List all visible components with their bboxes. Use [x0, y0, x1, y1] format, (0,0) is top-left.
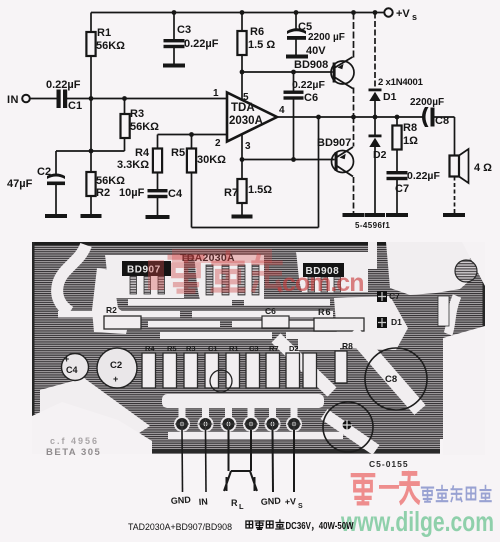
- wire pin 3 stub: [241, 134, 243, 160]
- watermark 个 (red): [401, 473, 419, 502]
- wire rail to C3: [173, 13, 175, 40]
- wire R2 to ground: [90, 195, 92, 214]
- svg-text:+V: +V: [284, 496, 296, 507]
- wire R4 to C4: [157, 172, 159, 190]
- pcb trace middle band 1: [128, 299, 330, 306]
- IC label box BD908: [303, 263, 344, 277]
- svg-text:4: 4: [279, 105, 285, 116]
- capacitor outline C5 big circle (pcb): [323, 402, 373, 452]
- svg-text:TDA: TDA: [231, 102, 255, 114]
- svg-text:2200µF: 2200µF: [410, 97, 444, 108]
- svg-text:4 Ω: 4 Ω: [474, 162, 492, 174]
- svg-text:R5: R5: [171, 147, 185, 159]
- junction: [291, 70, 296, 75]
- lead wire RL left: [228, 430, 230, 471]
- wire output to D2: [374, 117, 376, 135]
- pcb trace right edge snake: [448, 296, 457, 334]
- svg-text:+: +: [113, 374, 118, 384]
- pcb trace bottom band under pads: [168, 432, 343, 439]
- transistor BD908 pads (slots): [308, 277, 341, 292]
- svg-text:R7: R7: [269, 344, 279, 353]
- wire to C6 top: [293, 72, 295, 91]
- resistor R4: [153, 149, 162, 173]
- watermarks and captions: [128, 249, 494, 537]
- wire C2/R2/R3 node: [56, 150, 125, 152]
- svg-text:C8: C8: [385, 374, 397, 385]
- pad with cross C7 (pcb): [377, 291, 400, 302]
- pcb trace diagonal through C8: [352, 332, 420, 410]
- svg-text:0.22µF: 0.22µF: [292, 79, 325, 91]
- svg-text:2: 2: [215, 138, 221, 149]
- ground C4: [146, 215, 170, 219]
- capacitor C2 (electrolytic 47uF): [47, 174, 65, 186]
- transistor Q2 BD907: [332, 147, 354, 177]
- RL load symbol: [224, 471, 257, 491]
- svg-text:IN: IN: [198, 496, 208, 507]
- wire R1 to input node: [90, 55, 92, 99]
- wire C8 to speaker: [435, 116, 455, 118]
- PCB photo top border: [32, 242, 485, 246]
- svg-text:.com.cn: .com.cn: [276, 269, 363, 297]
- wire pin 5 stub: [241, 72, 243, 101]
- wire C5 to ground: [295, 40, 297, 55]
- wire output to BD907: [353, 117, 355, 147]
- svg-text:s: s: [412, 12, 417, 22]
- svg-text:D2: D2: [373, 149, 387, 161]
- wire speaker to ground: [454, 177, 456, 214]
- pcb white right-bottom margin: [443, 326, 485, 455]
- svg-text:56KΩ: 56KΩ: [130, 121, 159, 133]
- svg-text:C6: C6: [265, 306, 276, 316]
- PCB photo background (scanned stripes): [32, 242, 485, 454]
- wire to R5: [191, 135, 193, 149]
- svg-text:C3: C3: [249, 344, 259, 353]
- svg-text:0.22µF: 0.22µF: [46, 79, 81, 91]
- wire rail to R1: [90, 13, 92, 33]
- svg-text:www.dilge.com: www.dilge.com: [340, 506, 494, 537]
- wire to R7: [241, 160, 243, 180]
- svg-text:C7: C7: [395, 183, 409, 195]
- svg-text:0.22µF: 0.22µF: [184, 38, 219, 50]
- wire rail to C5: [295, 13, 297, 31]
- +Vs terminal: [384, 8, 392, 16]
- transistor BD907 pads (slots): [130, 276, 165, 294]
- pcb trace right middle patch: [334, 296, 408, 350]
- svg-text:R6: R6: [318, 307, 332, 317]
- svg-text:3.3KΩ: 3.3KΩ: [117, 159, 149, 171]
- white patch right of bottom border: [440, 439, 486, 455]
- pcb trace region around BD907: [105, 255, 184, 298]
- svg-text:IN: IN: [7, 94, 19, 106]
- svg-text:1.5Ω: 1.5Ω: [248, 184, 272, 196]
- pad with cross D1 (pcb): [377, 317, 402, 328]
- resistor outline R6 (pcb): [314, 307, 364, 331]
- resistor R3: [121, 114, 130, 138]
- svg-text:TAD2030A+BD907/BD908: TAD2030A+BD907/BD908: [128, 522, 232, 532]
- PCB photo right border: [483, 242, 486, 334]
- svg-text:R3: R3: [186, 344, 196, 353]
- pcb trace patch left of R8: [298, 336, 340, 350]
- component row labels (pcb): [145, 344, 299, 353]
- speaker 4 ohm: [450, 149, 469, 183]
- svg-text:GND: GND: [170, 495, 191, 506]
- resistor R7: [237, 179, 246, 203]
- junction: [351, 10, 356, 15]
- diode D2: [369, 135, 382, 148]
- wire C2 to ground: [55, 185, 57, 214]
- svg-text:5: 5: [243, 92, 249, 103]
- wire C3 to ground: [173, 48, 175, 64]
- wire rail to BD908 emitter: [353, 13, 355, 58]
- wire to R2: [90, 151, 92, 172]
- wire D1 to output: [374, 101, 376, 118]
- capacitor outline C2 (pcb): [97, 348, 137, 388]
- pcb trace left vertical band: [92, 268, 130, 334]
- ground C5: [286, 55, 308, 59]
- schematic group: [7, 8, 492, 230]
- right region cutout slot: [438, 296, 449, 326]
- lead wire +Vs: [293, 430, 295, 492]
- svg-text:D1: D1: [391, 317, 402, 327]
- ground C7: [386, 213, 408, 217]
- svg-text:D2: D2: [289, 344, 299, 353]
- pcb trace region TDA2030 footprint: [194, 255, 264, 300]
- ground D2: [365, 213, 385, 217]
- wire C4 to ground: [157, 198, 159, 216]
- junction: [316, 115, 321, 120]
- red watermark char 2 (PCB): [213, 253, 243, 290]
- svg-text:R2: R2: [96, 187, 110, 199]
- wire BD908 base net: [242, 71, 333, 73]
- wire rail to R6: [241, 13, 243, 32]
- svg-text:0.22µF: 0.22µF: [407, 170, 440, 182]
- TDA2030 leg slots: [206, 265, 259, 295]
- svg-text:C7: C7: [389, 291, 400, 301]
- resistor R5: [187, 149, 196, 173]
- svg-text:1: 1: [213, 88, 219, 99]
- wire pin 2 net: [158, 134, 228, 136]
- pcb trace bottom-left diagonal: [40, 378, 150, 444]
- svg-text:C3: C3: [177, 24, 191, 36]
- svg-text:R3: R3: [130, 108, 144, 120]
- PCB photo bottom border: [32, 449, 440, 453]
- pcb trace right vertical stub: [368, 242, 377, 269]
- pcb trace middle band 4: [160, 332, 390, 339]
- svg-text:+V: +V: [396, 8, 410, 20]
- junction: [373, 10, 378, 15]
- wire node to R2 branch: [90, 99, 92, 152]
- svg-text:1.5 Ω: 1.5 Ω: [248, 39, 275, 51]
- pcb trace region around BD908: [296, 252, 368, 292]
- pcb trace left S-curve: [57, 245, 86, 312]
- svg-text:C5-0155: C5-0155: [369, 459, 409, 469]
- caption chinese 电源电压: [246, 520, 284, 529]
- op-amp U1 TDA2030A: [227, 93, 277, 142]
- PCB layout photo: [32, 242, 486, 511]
- svg-text:R5: R5: [167, 344, 177, 353]
- ground BD907: [343, 213, 365, 217]
- svg-text:C4: C4: [66, 365, 78, 375]
- svg-text:R8: R8: [342, 341, 353, 351]
- IC label box BD907: [122, 261, 171, 276]
- wire BD908 collector to output: [353, 88, 355, 118]
- wire C1 to pin 1: [67, 98, 227, 100]
- junction: [189, 132, 194, 137]
- wire to C2: [55, 151, 57, 176]
- resistor R2: [86, 172, 95, 196]
- junction: [89, 149, 94, 154]
- svg-text:D1: D1: [383, 91, 397, 103]
- svg-text:BETA 305: BETA 305: [46, 447, 101, 458]
- svg-text:10µF: 10µF: [119, 187, 145, 199]
- pcb white corner top-right: [462, 242, 485, 286]
- svg-text:C2: C2: [110, 360, 122, 371]
- junction: [395, 115, 400, 120]
- junction: [240, 157, 245, 162]
- wire IN to C1: [30, 98, 57, 100]
- junction: [89, 96, 94, 101]
- svg-text:R2: R2: [106, 305, 117, 315]
- lead wire RL right: [250, 430, 252, 471]
- capacitor outline C4 (pcb): [62, 354, 89, 381]
- svg-text:5-4596f1: 5-4596f1: [355, 221, 390, 230]
- svg-text:R6: R6: [250, 26, 264, 38]
- svg-text:C4: C4: [168, 188, 183, 200]
- wire pin1 node to R3: [124, 99, 126, 115]
- svg-text:2 x1N4001: 2 x1N4001: [378, 77, 424, 88]
- component row outlines (pcb): [142, 353, 317, 388]
- junction: [291, 157, 296, 162]
- resistor outline R8 (pcb): [335, 341, 353, 383]
- pcb trace middle band 3: [148, 321, 328, 327]
- junction: [172, 10, 177, 15]
- capacitor C3 plates: [164, 39, 185, 48]
- ground R2: [81, 214, 102, 218]
- wire C7 to ground: [396, 180, 398, 213]
- wire to R4: [157, 135, 159, 149]
- svg-text:1Ω: 1Ω: [403, 135, 418, 147]
- svg-text:GND: GND: [260, 496, 281, 507]
- ground speaker: [443, 213, 465, 217]
- svg-text:R1: R1: [229, 344, 239, 353]
- svg-text:R4: R4: [135, 147, 150, 159]
- capacitor C5 (electrolytic): [287, 28, 306, 40]
- transistor Q1 BD908: [331, 57, 354, 89]
- input terminal: [22, 95, 30, 103]
- pad riser traces: [179, 396, 298, 418]
- wire output to R8: [396, 117, 398, 126]
- svg-text:R4: R4: [145, 344, 155, 353]
- wire feedback bottom: [192, 227, 319, 229]
- capacitor C8 (2200uF): [422, 107, 435, 127]
- resistor outline horizontal left (pcb): [104, 305, 141, 329]
- junction: [240, 70, 245, 75]
- ground C2: [45, 214, 67, 218]
- pcb trace diagonal through C5: [324, 414, 376, 450]
- svg-text:+: +: [64, 354, 69, 364]
- svg-text:L: L: [239, 502, 244, 511]
- junction: [122, 96, 127, 101]
- resistor R8: [392, 126, 401, 150]
- red watermark patch left: [148, 260, 164, 290]
- lead wire GND2: [272, 430, 275, 492]
- svg-text:BD907: BD907: [317, 137, 351, 149]
- svg-text:c.f 4956: c.f 4956: [50, 436, 99, 446]
- wire R8 to C7: [396, 149, 398, 171]
- wire rail to D1: [374, 13, 376, 89]
- pcb trace middle band 2: [58, 311, 333, 318]
- capacitor outline C8 big circle (pcb): [365, 348, 427, 410]
- svg-text:C2: C2: [37, 166, 51, 178]
- svg-text:C1: C1: [208, 344, 218, 353]
- capacitor C6 plates: [284, 91, 304, 100]
- PCB photo left border: [32, 242, 35, 422]
- resistor R6: [237, 31, 246, 55]
- wire R6 to base node: [241, 54, 243, 72]
- svg-text:3: 3: [245, 141, 251, 152]
- ground C3: [163, 64, 185, 68]
- svg-text:C1: C1: [68, 100, 82, 112]
- wire BD907 to ground: [353, 177, 355, 213]
- red watermark band over PCB: [172, 249, 272, 263]
- wire +Vs top rail: [91, 12, 388, 14]
- svg-text:47µF: 47µF: [7, 178, 33, 190]
- wire feedback up to output: [318, 117, 320, 228]
- diode D1: [369, 89, 382, 102]
- pcb white margin bottom-left corner: [32, 402, 152, 454]
- capacitor C4 plates: [148, 189, 168, 198]
- wire R5 down: [191, 172, 193, 228]
- watermark 一 (red): [379, 485, 399, 489]
- wire C6 bottom to pin3 net: [293, 100, 295, 160]
- svg-text:C6: C6: [304, 92, 318, 104]
- junction: [294, 10, 299, 15]
- red watermark char 1 (PCB): [170, 257, 202, 291]
- right region cutout circle: [455, 260, 477, 282]
- svg-text:56KΩ: 56KΩ: [96, 175, 125, 187]
- svg-text:R8: R8: [403, 122, 417, 134]
- svg-text:S: S: [298, 503, 303, 510]
- svg-text:DC36V，40W-50W: DC36V，40W-50W: [286, 520, 354, 532]
- capacitor outline C6 (pcb): [262, 306, 289, 328]
- wire output net: [277, 116, 424, 118]
- lead wire GND1: [181, 430, 184, 492]
- lead wire IN: [205, 430, 208, 492]
- wire down to speaker: [454, 117, 456, 156]
- capacitor C7 plates: [387, 171, 408, 180]
- svg-text:C8: C8: [435, 115, 449, 127]
- junction: [240, 10, 245, 15]
- wire R7 to ground: [241, 202, 243, 215]
- wire D2 to ground: [374, 146, 376, 213]
- watermark 电子技术站 (blue): [422, 486, 491, 502]
- ground R7: [232, 215, 253, 219]
- capacitor outline small circle (pcb): [210, 370, 232, 392]
- svg-text:2030A: 2030A: [229, 115, 263, 127]
- svg-text:BD908: BD908: [294, 59, 328, 71]
- pcb trace region far right: [386, 242, 480, 295]
- resistor R1: [86, 32, 95, 56]
- junction: [351, 115, 356, 120]
- svg-text:30KΩ: 30KΩ: [197, 154, 226, 166]
- svg-text:40V: 40V: [306, 45, 326, 57]
- watermark 第 (red): [352, 475, 374, 503]
- solder pads row: [174, 416, 302, 432]
- pcb trace bottom middle band: [162, 394, 324, 408]
- svg-text:R: R: [231, 498, 238, 508]
- capacitor C1: [57, 90, 68, 109]
- svg-text:R7: R7: [224, 187, 238, 199]
- pcb trace diagonal near pads: [276, 338, 332, 392]
- wire R3 bottom: [124, 137, 126, 151]
- red watermark char 3 (PCB): [253, 256, 280, 290]
- svg-text:56KΩ: 56KΩ: [96, 40, 125, 52]
- svg-text:2200 µF: 2200 µF: [308, 32, 345, 43]
- svg-text:R1: R1: [97, 27, 111, 39]
- junction: [373, 115, 378, 120]
- wire BD907 base net: [242, 159, 335, 161]
